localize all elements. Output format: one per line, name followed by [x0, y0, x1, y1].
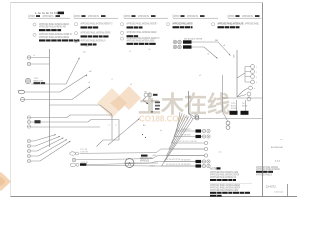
svg-text:APPROVED PA: APPROVED PA: [242, 15, 253, 18]
svg-text:APPROVED PANEL M: APPROVED PANEL M: [256, 174, 272, 177]
svg-text:APPROVED: APPROVED: [140, 159, 149, 162]
svg-text:APPROVED PANEL MATERIAL RE: APPROVED PANEL MATERIAL RE: [210, 176, 236, 179]
svg-text:2H5.2: 2H5.2: [150, 166, 155, 168]
svg-text:APPROVED PA: APPROVED PA: [187, 15, 198, 18]
svg-text:APPROVED PANEL MATERIAL RE: APPROVED PANEL MATERIAL RE: [218, 23, 244, 26]
svg-text:APPROVED PANEL MATERIAL REFER: APPROVED PANEL MATERIAL REFER: [127, 31, 157, 34]
svg-text:ROOM: ROOM: [231, 108, 237, 110]
svg-text:APPROV: APPROV: [174, 15, 180, 18]
svg-text:APPROV: APPROV: [125, 15, 131, 18]
svg-text:GY 16 GYO 3 7/8: GY 16 GYO 3 7/8: [166, 164, 180, 166]
svg-text:B-2-5/8-2-00: B-2-5/8-2-00: [271, 147, 284, 149]
svg-text:APPROVED PANEL MATERIAL REFER: APPROVED PANEL MATERIAL REFER: [39, 36, 69, 39]
svg-text:A: A: [128, 161, 131, 166]
svg-text:APPROV: APPROV: [75, 15, 81, 18]
svg-text:1:100 scale: 1:100 scale: [274, 192, 283, 194]
svg-text:APPROVED PANEL MATERIAL: APPROVED PANEL MATERIAL: [256, 168, 280, 171]
svg-text:a: a: [256, 67, 257, 69]
svg-text:12-4-27.2: 12-4-27.2: [266, 187, 277, 189]
svg-text:APPROVED PA: APPROVED PA: [138, 15, 149, 18]
svg-text:APPROVED PANEL MATERIAL REFER: APPROVED PANEL MATERIAL REFER: [81, 32, 111, 35]
svg-text:GY 16 GYO 3 7/8: GY 16 GYO 3 7/8: [166, 159, 180, 161]
svg-text:APPROVED PANEL MATER: APPROVED PANEL MATER: [173, 23, 193, 26]
svg-text:+005: +005: [152, 155, 156, 157]
svg-text:APPROVED PANEL MATERIAL REF: APPROVED PANEL MATERIAL REF: [39, 25, 66, 28]
svg-text:a: a: [256, 72, 257, 74]
svg-text:APPROVED PANEL MATERIAL REFE: APPROVED PANEL MATERIAL REFE: [210, 189, 238, 192]
svg-text:a: a: [254, 88, 255, 90]
svg-text:MODE: MODE: [242, 106, 248, 108]
svg-text:NO.: NO.: [215, 40, 219, 42]
svg-text:APPROVED PANEL MATERIAL REFE: APPROVED PANEL MATERIAL REFE: [127, 39, 155, 42]
svg-text:APPROVED PA: APPROVED PA: [88, 15, 99, 18]
svg-text:GY 16 GYO 1 GB TW: GY 16 GYO 1 GB TW: [179, 141, 197, 143]
svg-text:APPROV: APPROV: [229, 15, 235, 18]
svg-text:a: a: [256, 82, 257, 84]
svg-text:c5: c5: [33, 55, 35, 57]
svg-text:APPROVED PA: APPROVED PA: [43, 15, 54, 18]
svg-text:MAIN JOR: MAIN JOR: [34, 79, 44, 82]
svg-text:—: —: [280, 139, 283, 142]
svg-text:APPROVED PANEL MATERIAL REFER: APPROVED PANEL MATERIAL REFER TO: [81, 23, 113, 26]
svg-text:+0.5: +0.5: [218, 152, 222, 154]
svg-text:APPROVED PANEL: APPROVED PANEL: [245, 23, 259, 26]
svg-text:APPROVED PANEL MATERIAL REFER: APPROVED PANEL MATERIAL REFER T: [127, 23, 158, 26]
svg-text:4-2-6: 4-2-6: [275, 161, 281, 163]
svg-text:APPROVED PANEL MATERIAL R: APPROVED PANEL MATERIAL R: [81, 40, 106, 43]
svg-text:APPROV: APPROV: [29, 15, 35, 18]
svg-text:GX 16 105 3 7/8 TW: GX 16 105 3 7/8 TW: [184, 39, 202, 41]
svg-text:a4: a4: [160, 130, 162, 132]
svg-text:a: a: [256, 77, 257, 79]
svg-text:GY10 JB: GY10 JB: [81, 162, 89, 164]
